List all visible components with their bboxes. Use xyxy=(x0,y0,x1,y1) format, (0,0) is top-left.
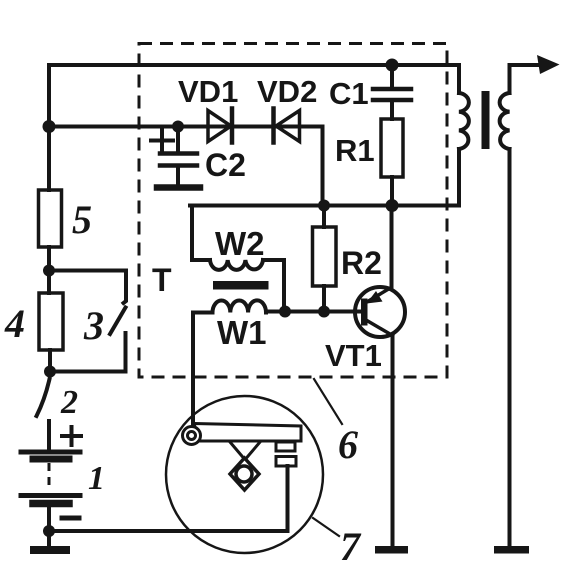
diode VD2 xyxy=(274,109,300,143)
switch 2 xyxy=(37,379,50,416)
output transformer secondary xyxy=(500,65,510,546)
capacitor C2 (electrolytic) xyxy=(151,127,200,188)
switch 3 branch xyxy=(49,271,126,372)
battery 1 xyxy=(21,421,81,546)
breaker cam follower V xyxy=(230,442,260,459)
breaker cam diamond xyxy=(230,458,259,490)
node junction at left bus / middle rail xyxy=(43,120,56,133)
breaker contact lower xyxy=(276,457,296,467)
wire base rail (y=205) xyxy=(190,204,459,208)
output transformer core xyxy=(482,91,490,149)
transformer T winding W1 xyxy=(193,300,266,427)
svg-text:T: T xyxy=(152,262,172,298)
node junction W2/R2 top xyxy=(318,200,330,212)
dashed enclosure 6 xyxy=(139,44,447,378)
node junction battery bottom xyxy=(43,525,55,537)
svg-text:1: 1 xyxy=(88,460,105,497)
ground (battery) xyxy=(30,546,70,554)
transistor VT1 xyxy=(355,287,405,337)
diode VD1 xyxy=(208,109,232,143)
svg-text:3: 3 xyxy=(83,303,104,348)
breaker unit circle 7 xyxy=(166,396,323,553)
resistor 5 xyxy=(39,190,62,271)
svg-text:4: 4 xyxy=(4,301,25,346)
svg-text:2: 2 xyxy=(60,384,78,421)
callout line to 7 xyxy=(313,518,339,536)
transformer T winding W2 xyxy=(192,206,284,312)
node junction W2 bottom / W1 xyxy=(279,306,291,318)
node junction R5 bottom xyxy=(43,265,55,277)
wire collector down to ground xyxy=(391,335,395,546)
breaker lever arm xyxy=(194,424,301,442)
breaker pivot xyxy=(183,427,201,445)
wire contact down xyxy=(286,466,290,531)
ground (secondary) xyxy=(494,546,529,554)
node junction R4 bottom xyxy=(44,366,56,378)
svg-text:VT1: VT1 xyxy=(325,338,382,373)
ground (transistor) xyxy=(375,546,408,554)
wire HT output with arrow xyxy=(510,55,560,74)
node junction R1 bottom xyxy=(386,199,399,212)
wire left bus vertical xyxy=(47,65,51,190)
resistor 4 xyxy=(39,271,63,372)
wire top rail xyxy=(49,63,459,67)
callout line to 6 xyxy=(314,379,342,424)
resistor R1 xyxy=(381,119,403,206)
svg-text:7: 7 xyxy=(340,524,362,569)
node junction C1/R1 top xyxy=(386,59,399,72)
svg-text:C2: C2 xyxy=(205,147,246,183)
wire emitter up xyxy=(390,206,394,289)
output transformer primary xyxy=(459,65,469,206)
svg-text:R1: R1 xyxy=(335,133,375,168)
svg-text:R2: R2 xyxy=(341,245,382,281)
svg-text:6: 6 xyxy=(338,422,358,467)
node junction C2 tap xyxy=(172,121,184,133)
breaker contact upper xyxy=(276,442,295,451)
capacitor C1 xyxy=(373,65,411,119)
wire base rail to transistor xyxy=(266,310,362,314)
svg-text:W2: W2 xyxy=(215,225,265,262)
svg-text:C1: C1 xyxy=(329,76,369,111)
svg-text:VD1: VD1 xyxy=(178,74,238,109)
node junction R2 bottom xyxy=(318,306,330,318)
svg-text:5: 5 xyxy=(72,197,92,242)
wire VD2 output down xyxy=(321,127,325,206)
transformer T core xyxy=(213,281,269,290)
svg-text:VD2: VD2 xyxy=(257,74,317,109)
wire battery to breaker xyxy=(49,529,288,533)
resistor R2 xyxy=(313,206,337,312)
svg-text:W1: W1 xyxy=(217,314,267,351)
wire middle rail xyxy=(49,125,323,129)
